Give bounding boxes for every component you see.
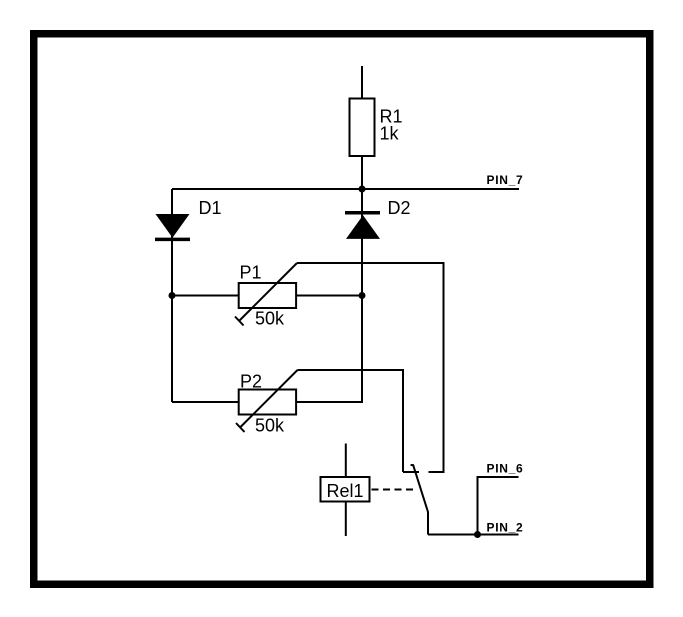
- svg-text:50k: 50k: [255, 416, 285, 436]
- dashed actuation link: [372, 489, 418, 491]
- wire: PIN_7 horizontal net: [172, 188, 519, 190]
- svg-text:P1: P1: [240, 263, 262, 283]
- wire: R1 to PIN_7 node: [361, 156, 363, 189]
- wire: left contact foot: [403, 471, 419, 473]
- svg-text:PIN_2: PIN_2: [487, 521, 524, 535]
- svg-text:PIN_6: PIN_6: [487, 462, 524, 476]
- diode D1: [155, 198, 222, 239]
- wire: center rail: [361, 189, 363, 403]
- potentiometer P1: [235, 263, 297, 329]
- svg-text:PIN_7: PIN_7: [487, 173, 524, 187]
- svg-text:D2: D2: [388, 198, 411, 218]
- relay Rel1: [321, 444, 370, 537]
- svg-text:D1: D1: [199, 198, 222, 218]
- resistor R1: [350, 99, 403, 157]
- diode D2: [345, 198, 411, 239]
- svg-text:P2: P2: [240, 372, 262, 392]
- switch lever: [411, 465, 428, 535]
- wire: P1 wiper to switch (right vertical): [297, 263, 444, 472]
- wire: P1 row: [172, 295, 362, 297]
- wire: P2 row: [172, 401, 362, 403]
- junction dot P1 left: [169, 292, 176, 299]
- wire: PIN_6 branch: [478, 477, 519, 535]
- potentiometer P2: [236, 370, 298, 436]
- wire: PIN_2 horizontal: [428, 534, 519, 536]
- junction dot P1 right: [359, 292, 366, 299]
- svg-text:1k: 1k: [380, 124, 400, 144]
- junction dot at R1/PIN_7: [359, 186, 366, 193]
- wire: top stub above R1: [361, 66, 363, 99]
- svg-text:Rel1: Rel1: [327, 481, 364, 501]
- svg-text:50k: 50k: [255, 309, 285, 329]
- wire: P2 wiper to switch (left vertical): [298, 370, 404, 472]
- junction dot PIN_2: [474, 531, 481, 538]
- wire: right contact foot: [429, 471, 445, 473]
- wire: left rail: [171, 189, 173, 402]
